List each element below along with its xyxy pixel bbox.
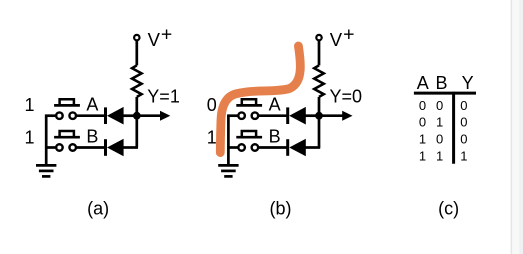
junction node Y (b) [315, 112, 323, 120]
pushbutton switch A: right contact (a) [69, 112, 76, 119]
wire resistor to B-diode node (b) [318, 97, 321, 148]
svg-text:0: 0 [436, 98, 443, 113]
diode DA (b) [286, 107, 289, 124]
svg-text:A: A [269, 95, 281, 115]
wire diode DB to output node (a) [123, 146, 138, 149]
pushbutton switch B: actuator cap (a) [54, 136, 80, 139]
svg-text:Y: Y [462, 73, 474, 93]
svg-text:0: 0 [460, 98, 467, 113]
resistor pull-up (a) [132, 65, 142, 97]
svg-text:A: A [86, 95, 98, 115]
pushbutton switch A: actuator cap (a) [54, 104, 80, 107]
wire switch A to diode (b) [258, 114, 287, 117]
junction node Y (a) [133, 112, 141, 120]
wire diode DA to output node (b) [305, 114, 320, 117]
wire switch B to diode (b) [258, 146, 287, 149]
pushbutton switch B: left contact (a) [56, 144, 63, 151]
pushbutton switch A: left contact (b) [238, 112, 245, 119]
svg-text:0: 0 [460, 115, 467, 130]
svg-text:(a): (a) [87, 199, 109, 219]
svg-text:1: 1 [460, 149, 467, 164]
pushbutton switch B: left contact (b) [238, 144, 245, 151]
svg-text:+: + [161, 24, 172, 46]
wire rail to switch B (b) [227, 146, 237, 149]
diode DA (a) [104, 107, 107, 124]
wire input rail to ground (b) [227, 115, 230, 166]
svg-text:+: + [343, 24, 354, 46]
svg-text:B: B [86, 127, 98, 147]
svg-text:B: B [269, 127, 281, 147]
svg-text:0: 0 [419, 98, 426, 113]
svg-text:0: 0 [207, 95, 217, 115]
wire output arrow Y (a) [137, 114, 162, 117]
pushbutton switch A: right contact (b) [252, 112, 259, 119]
svg-text:1: 1 [436, 115, 443, 130]
pushbutton switch B: actuator cap (b) [236, 136, 262, 139]
node V+ terminal (a) [134, 35, 139, 40]
svg-text:(c): (c) [438, 199, 459, 219]
wire switch A to diode (a) [76, 114, 105, 117]
svg-text:1: 1 [436, 149, 443, 164]
pushbutton switch A: actuator cap (b) [236, 104, 262, 107]
svg-text:0: 0 [419, 115, 426, 130]
wire diode DB to output node (b) [305, 146, 320, 149]
wire rail to switch A (a) [45, 114, 55, 117]
svg-text:1: 1 [207, 128, 217, 148]
svg-text:1: 1 [419, 132, 426, 147]
wire V+ to resistor (b) [318, 40, 321, 65]
svg-text:A: A [417, 73, 429, 93]
pushbutton switch A: left contact (a) [56, 112, 63, 119]
node V+ terminal (b) [316, 35, 321, 40]
svg-text:Y=1: Y=1 [147, 87, 180, 107]
truth table header rule [414, 92, 476, 95]
page edge band [512, 0, 523, 254]
wire rail to switch A (b) [227, 114, 237, 117]
svg-text:V: V [148, 29, 161, 50]
wire rail to switch B (a) [45, 146, 55, 149]
wire diode DA to output node (a) [123, 114, 138, 117]
svg-text:1: 1 [25, 95, 35, 115]
svg-text:Y=0: Y=0 [330, 87, 363, 107]
wire V+ to resistor (a) [135, 40, 138, 65]
svg-text:1: 1 [25, 128, 35, 148]
ground (b) [218, 164, 238, 167]
truth table column separator [452, 92, 455, 164]
wire resistor to B-diode node (a) [135, 97, 138, 148]
pushbutton switch B: right contact (b) [252, 144, 259, 151]
wire output arrow Y (b) [319, 114, 344, 117]
svg-text:(b): (b) [270, 199, 292, 219]
svg-text:0: 0 [436, 132, 443, 147]
ground (a) [36, 164, 56, 167]
resistor pull-up (b) [314, 65, 324, 97]
highlight current-path marker stroke (b) [220, 46, 300, 153]
diode DB (b) [286, 139, 289, 156]
svg-text:0: 0 [460, 132, 467, 147]
wire switch B to diode (a) [76, 146, 105, 149]
pushbutton switch B: right contact (a) [69, 144, 76, 151]
svg-text:V: V [330, 29, 343, 50]
diode DB (a) [104, 139, 107, 156]
svg-text:B: B [435, 73, 447, 93]
svg-text:1: 1 [419, 149, 426, 164]
wire input rail to ground (a) [45, 115, 48, 166]
